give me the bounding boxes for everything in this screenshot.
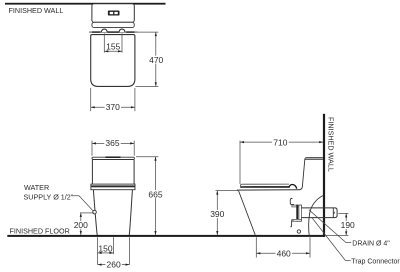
trap connector leader line: [312, 218, 351, 261]
dim 370 extension lines: [91, 88, 135, 111]
dim 190 line and arrows: [345, 213, 347, 235]
bowl pedestal sides (front view): [93, 190, 132, 235]
seat outline (plan view): [91, 35, 135, 87]
finished wall line (side view, vertical): [323, 114, 325, 237]
seat rim line (side view): [237, 189, 300, 191]
trap connector top flange: [292, 205, 302, 207]
svg-text:WATER: WATER: [24, 183, 49, 192]
drain pipe cap pinch: [333, 212, 336, 214]
dim 665 extension top: [136, 156, 158, 158]
dim 470 extension top: [138, 31, 159, 33]
dim 365 line and arrows: [92, 142, 134, 144]
drain fixing circle: [297, 230, 300, 233]
svg-text:DRAIN Ø 4": DRAIN Ø 4": [352, 241, 390, 248]
svg-text:390: 390: [210, 209, 224, 219]
svg-text:Trap Connector: Trap Connector: [351, 259, 400, 266]
dim 190 extension bottom: [326, 234, 349, 236]
hinge line: [89, 31, 138, 33]
dim 470 text: [148, 55, 164, 65]
svg-text:SUPPLY Ø 1/2": SUPPLY Ø 1/2": [24, 193, 74, 202]
trap connector top hook: [290, 198, 294, 204]
trapway rear curve: [309, 195, 324, 236]
svg-text:710: 710: [273, 137, 287, 147]
svg-text:460: 460: [277, 248, 291, 258]
dim 460 text: [276, 248, 292, 258]
dim 710 extension left: [239, 141, 241, 184]
dim 365 text: [104, 138, 120, 148]
tank body (front view): [92, 160, 134, 184]
dim 155 line and arrows: [104, 50, 122, 52]
dim 665 text: [148, 189, 164, 199]
hinge cap right: [119, 29, 125, 32]
trap connector bottom hook: [290, 221, 294, 227]
dim 260 extension line right: [129, 237, 131, 264]
svg-text:FINISHED WALL: FINISHED WALL: [327, 117, 336, 172]
dim 200 line and arrows: [80, 213, 82, 235]
svg-text:190: 190: [341, 220, 355, 230]
dim 200 extension top: [80, 212, 94, 214]
dim 190 extension top: [338, 212, 348, 214]
dim 190 text: [340, 220, 356, 230]
flush button plate: [108, 11, 120, 16]
drain pipe: [301, 208, 337, 218]
dim 460 line and arrows: [256, 252, 310, 254]
drain pipe socket line: [332, 208, 334, 218]
tank lid (plan view): [92, 4, 134, 23]
trap connector clamp bar (dark): [296, 205, 298, 222]
svg-text:470: 470: [149, 55, 163, 65]
dim 390 extension top: [216, 190, 239, 192]
water supply circle: [93, 210, 97, 214]
seat hinge bump (side view): [289, 185, 297, 189]
dim 665 line and arrows: [154, 157, 156, 235]
dim 460 extension lines: [256, 237, 310, 257]
dim 260 line and arrows: [98, 264, 130, 266]
dim 150 line and arrows: [98, 252, 114, 254]
dim 260 text: [105, 260, 121, 270]
dim 370 line and arrows: [91, 106, 135, 108]
trap connector bottom flange: [292, 219, 302, 221]
trap connector sleeve: [299, 205, 302, 221]
svg-text:365: 365: [105, 138, 119, 148]
svg-text:FINISHED FLOOR: FINISHED FLOOR: [10, 226, 70, 235]
finished floor line: [7, 235, 325, 237]
dim 390 text: [209, 209, 225, 219]
dim 365 extension lines: [92, 141, 134, 156]
svg-text:200: 200: [74, 220, 88, 230]
drain leader line: [309, 210, 351, 243]
seat cover bottom edge (dark): [240, 186, 289, 188]
dim 155 extension lines: [104, 33, 122, 52]
tank lid (front view): [92, 157, 134, 159]
hinge cap left: [101, 29, 107, 32]
svg-text:665: 665: [148, 189, 162, 199]
bowl front edge (side view): [239, 191, 256, 235]
tank lid (side view): [305, 158, 323, 160]
dim 710 text: [272, 137, 289, 147]
svg-text:FINISHED WALL: FINISHED WALL: [9, 6, 64, 15]
dim 370 text: [105, 102, 121, 112]
dim 470 line and arrows: [155, 32, 157, 86]
dim 470 extension bottom: [135, 85, 158, 87]
water supply leader: [73, 196, 94, 211]
tank front edge (side view): [300, 160, 305, 190]
dim 390 line and arrows: [216, 191, 218, 235]
dim 200 text: [73, 220, 89, 230]
svg-text:150: 150: [98, 244, 112, 254]
tank front band (plan view): [92, 22, 134, 27]
tank collar band: [91, 184, 135, 190]
seat cover (side view): [240, 184, 289, 186]
svg-text:260: 260: [107, 260, 121, 270]
dim 150 extension lines: [98, 237, 114, 264]
svg-text:155: 155: [106, 42, 120, 52]
svg-text:370: 370: [106, 102, 120, 112]
finished wall line (top): [5, 3, 166, 5]
dim 710 line and arrows: [240, 141, 323, 143]
